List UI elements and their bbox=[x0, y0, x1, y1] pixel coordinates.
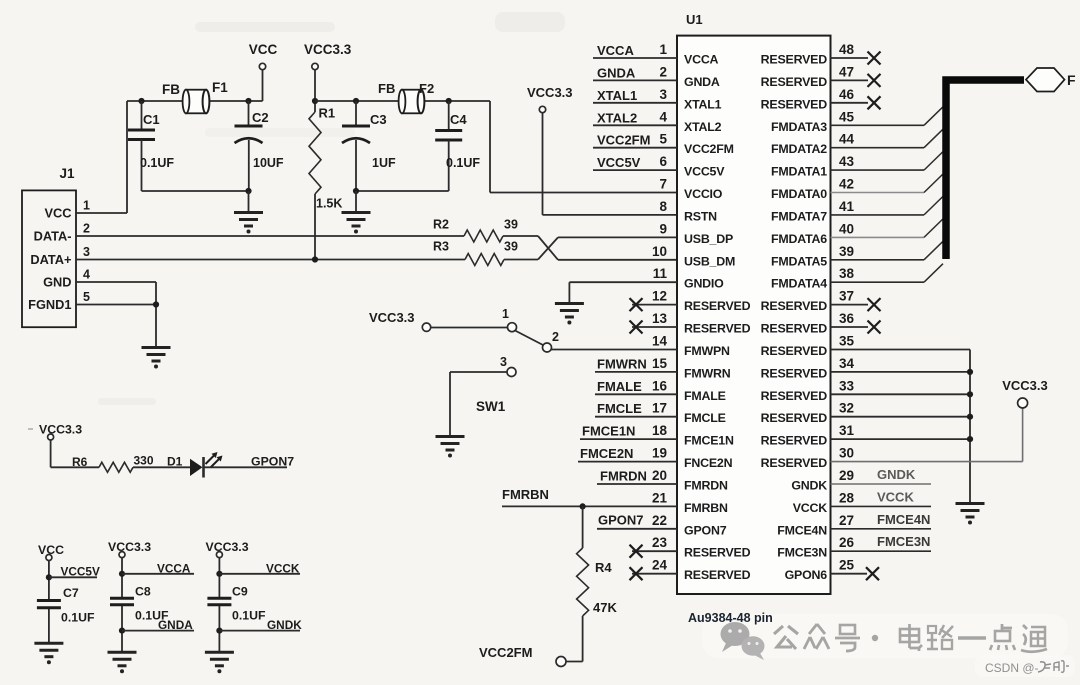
svg-text:2: 2 bbox=[83, 222, 90, 236]
svg-text:0.1UF: 0.1UF bbox=[232, 609, 266, 623]
svg-text:27: 27 bbox=[839, 513, 854, 528]
svg-text:39: 39 bbox=[504, 218, 518, 232]
svg-text:35: 35 bbox=[839, 334, 855, 349]
ground C7 bbox=[34, 643, 63, 664]
wire R6 to D1 bbox=[133, 466, 190, 468]
junction C3 bottom bbox=[353, 188, 359, 194]
svg-text:VCC3.3: VCC3.3 bbox=[369, 310, 415, 325]
junction R4 top bbox=[580, 503, 586, 509]
capacitor C4 bbox=[435, 101, 480, 191]
power VCC bbox=[249, 42, 278, 101]
svg-text:DATA-: DATA- bbox=[34, 229, 72, 244]
svg-text:17: 17 bbox=[652, 401, 667, 416]
resistor R1 bbox=[309, 106, 342, 211]
svg-text:FMALE: FMALE bbox=[597, 379, 642, 394]
svg-text:43: 43 bbox=[839, 154, 855, 169]
svg-text:VCC3.3: VCC3.3 bbox=[1002, 378, 1048, 393]
net label FMRDN pin 20 bbox=[597, 469, 677, 485]
svg-text:38: 38 bbox=[839, 266, 855, 281]
svg-text:34: 34 bbox=[839, 356, 855, 371]
net label GNDA bbox=[122, 618, 194, 632]
no-connect pin23 bbox=[630, 545, 678, 558]
wire crossover DATA+ to USB_DP bbox=[538, 237, 677, 259]
no-connect pin46 bbox=[831, 96, 881, 109]
svg-text:4: 4 bbox=[659, 109, 667, 124]
wire VCC3.3 to RSTN pin8 bbox=[543, 214, 678, 216]
capacitor C8 bbox=[110, 585, 169, 623]
svg-text:C1: C1 bbox=[143, 112, 160, 127]
IC U1 right pin names bbox=[761, 53, 828, 583]
no-connect pin36 bbox=[831, 321, 881, 334]
svg-text:RSTN: RSTN bbox=[684, 209, 717, 223]
svg-text:R6: R6 bbox=[72, 455, 88, 469]
svg-text:25: 25 bbox=[839, 558, 855, 573]
wire SW1 pin2 to FMWPN pin14 bbox=[552, 349, 678, 351]
switch SW1 pin3 bbox=[500, 355, 516, 377]
junction VCCK bbox=[216, 571, 222, 577]
no-connect pin24 bbox=[630, 567, 678, 580]
wire VCC3.3 rail bbox=[315, 100, 490, 102]
wire SW1 pin3 to ground bbox=[450, 372, 507, 436]
wire c8 vert bbox=[121, 558, 123, 652]
svg-text:39: 39 bbox=[839, 244, 854, 259]
ferrite bead F2 bbox=[378, 81, 434, 113]
watermark csdn credit bbox=[985, 661, 1069, 675]
switch SW1 arm bbox=[515, 331, 543, 346]
svg-text:C3: C3 bbox=[370, 112, 387, 127]
svg-text:FMDATA6: FMDATA6 bbox=[771, 232, 827, 246]
junction VCC5V bbox=[46, 574, 52, 580]
wire c7 vert bbox=[48, 561, 50, 644]
IC U1 part number bbox=[688, 611, 773, 625]
svg-text:GPON7: GPON7 bbox=[251, 455, 294, 469]
svg-text:0.1UF: 0.1UF bbox=[446, 156, 480, 170]
svg-text:FMDATA5: FMDATA5 bbox=[771, 254, 827, 268]
svg-text:FMCE4N: FMCE4N bbox=[777, 523, 827, 537]
switch SW1 label bbox=[476, 399, 506, 414]
LED D1 bbox=[167, 452, 223, 478]
net label GNDK bbox=[219, 618, 302, 632]
wire C3 to ground bbox=[355, 191, 357, 212]
svg-text:FMDATA7: FMDATA7 bbox=[771, 209, 827, 223]
svg-text:28: 28 bbox=[839, 490, 855, 505]
svg-text:FMCLE: FMCLE bbox=[684, 411, 726, 425]
svg-text:VCCA: VCCA bbox=[684, 53, 719, 67]
svg-text:47K: 47K bbox=[593, 600, 617, 615]
wire C2 to ground bbox=[248, 191, 250, 212]
svg-text:10UF: 10UF bbox=[253, 156, 284, 170]
net label GNDA pin 2 bbox=[593, 65, 677, 80]
svg-text:C9: C9 bbox=[232, 585, 248, 599]
junction R1 top rail bbox=[312, 98, 318, 104]
svg-text:48: 48 bbox=[839, 42, 855, 57]
svg-text:FB: FB bbox=[378, 81, 395, 96]
svg-text:U1: U1 bbox=[686, 12, 703, 27]
net label FMCE2N pin 19 bbox=[578, 446, 677, 462]
svg-text:FMRDN: FMRDN bbox=[600, 469, 647, 484]
wire FMDATA pin39 bbox=[831, 241, 944, 259]
junction R1 DATA+ bbox=[312, 256, 318, 262]
svg-text:XTAL2: XTAL2 bbox=[684, 120, 722, 134]
svg-text:RESERVED: RESERVED bbox=[761, 389, 828, 403]
svg-text:3: 3 bbox=[83, 245, 90, 259]
svg-text:VCC: VCC bbox=[249, 42, 278, 57]
svg-text:R4: R4 bbox=[595, 560, 612, 575]
svg-text:37: 37 bbox=[839, 289, 854, 304]
svg-text:FMCE4N: FMCE4N bbox=[877, 512, 930, 527]
net label FMCE1N pin 18 bbox=[580, 424, 677, 440]
wire R3 out bbox=[504, 259, 538, 261]
svg-text:10: 10 bbox=[652, 244, 667, 259]
svg-text:29: 29 bbox=[839, 468, 854, 483]
junction J1 gnd node bbox=[153, 301, 159, 307]
wire C3-C4 bottom rail bbox=[356, 190, 449, 192]
net label FMWRN pin 15 bbox=[595, 356, 677, 372]
svg-text:31: 31 bbox=[839, 423, 855, 438]
net label VCC2FM pin 5 bbox=[593, 133, 677, 148]
wire GNDIO pin11 bbox=[569, 282, 677, 303]
svg-text:VCC3.3: VCC3.3 bbox=[527, 85, 573, 100]
svg-text:20: 20 bbox=[652, 468, 667, 483]
svg-text:GNDK: GNDK bbox=[791, 479, 827, 493]
wire pin31 to gnd rail bbox=[831, 436, 974, 442]
svg-text:FMCE3N: FMCE3N bbox=[777, 546, 827, 560]
svg-text:VCC3.3: VCC3.3 bbox=[39, 423, 82, 437]
net label FMCE3N pin 26 bbox=[831, 534, 932, 551]
ground C2 bbox=[234, 213, 263, 234]
IC U1 left pin numbers bbox=[652, 42, 668, 573]
svg-text:26: 26 bbox=[839, 535, 855, 550]
svg-text:USB_DP: USB_DP bbox=[684, 232, 733, 246]
svg-text:D1: D1 bbox=[167, 455, 183, 469]
wire R1 to DATA+ bbox=[314, 194, 316, 260]
wire FMDATA pin43 bbox=[831, 152, 944, 171]
svg-text:C4: C4 bbox=[450, 112, 467, 127]
svg-text:16: 16 bbox=[652, 378, 668, 393]
svg-text:18: 18 bbox=[652, 423, 668, 438]
svg-text:VCC3.3: VCC3.3 bbox=[206, 540, 249, 554]
svg-text:VCC3.3: VCC3.3 bbox=[304, 42, 352, 57]
svg-text:FMDATA1: FMDATA1 bbox=[771, 165, 827, 179]
net label VCC5V bbox=[49, 565, 100, 579]
wire FMDATA pin38 bbox=[831, 264, 944, 283]
svg-text:VCC2FM: VCC2FM bbox=[684, 142, 734, 156]
svg-text:9: 9 bbox=[659, 221, 667, 236]
svg-text:3: 3 bbox=[659, 87, 667, 102]
power VCC3.3 c8 bbox=[108, 540, 151, 558]
svg-text:J1: J1 bbox=[59, 166, 75, 181]
svg-text:13: 13 bbox=[652, 311, 668, 326]
svg-text:RESERVED: RESERVED bbox=[761, 53, 828, 67]
svg-text:2: 2 bbox=[659, 64, 667, 79]
no-connect pin25 bbox=[831, 567, 880, 580]
svg-text:39: 39 bbox=[504, 240, 518, 254]
svg-text:33: 33 bbox=[839, 378, 855, 393]
watermark text gongzhonghao bbox=[774, 624, 1047, 652]
svg-text:USB_DM: USB_DM bbox=[684, 254, 735, 268]
svg-text:VCC5V: VCC5V bbox=[597, 155, 641, 170]
svg-text:RESERVED: RESERVED bbox=[684, 568, 751, 582]
svg-text:VCC2FM: VCC2FM bbox=[597, 133, 650, 148]
svg-text:22: 22 bbox=[652, 513, 667, 528]
wire VCC rail bbox=[127, 100, 263, 102]
capacitor C3 bbox=[342, 101, 396, 191]
svg-text:15: 15 bbox=[652, 356, 668, 371]
svg-text:6: 6 bbox=[659, 154, 667, 169]
svg-text:RESERVED: RESERVED bbox=[761, 75, 828, 89]
wire FMDATA pin44 bbox=[831, 129, 944, 148]
wire DATA- from J1 pin2 to R2 bbox=[76, 235, 464, 237]
svg-text:F2: F2 bbox=[419, 81, 434, 96]
svg-text:C7: C7 bbox=[63, 586, 79, 600]
IC U1 body bbox=[677, 12, 831, 594]
svg-text:FB: FB bbox=[162, 82, 180, 97]
svg-text:FMCLE: FMCLE bbox=[597, 401, 642, 416]
wire C1-C2 bottom rail bbox=[142, 190, 249, 192]
capacitor C1 bbox=[128, 101, 174, 191]
capacitor C2 bbox=[235, 101, 284, 191]
svg-text:1: 1 bbox=[502, 307, 509, 321]
net label GPON7 led bbox=[251, 455, 294, 469]
svg-text:FMALE: FMALE bbox=[684, 389, 726, 403]
wire VCC3.3 to VCCIO pin7 bbox=[490, 101, 677, 193]
svg-text:R3: R3 bbox=[433, 240, 449, 254]
svg-text:VCC3.3: VCC3.3 bbox=[108, 540, 151, 554]
no-connect pin13 bbox=[630, 321, 678, 334]
svg-text:R2: R2 bbox=[433, 218, 449, 232]
power VCC c7 bbox=[38, 543, 64, 561]
svg-text:1UF: 1UF bbox=[372, 156, 396, 170]
svg-text:RESERVED: RESERVED bbox=[761, 322, 828, 336]
svg-text:32: 32 bbox=[839, 401, 854, 416]
svg-text:GPON7: GPON7 bbox=[598, 513, 644, 528]
net label GPON7 pin 22 bbox=[597, 513, 677, 529]
svg-text:RESERVED: RESERVED bbox=[761, 97, 828, 111]
net label FMCE4N pin 27 bbox=[831, 512, 932, 529]
svg-text:DATA+: DATA+ bbox=[30, 252, 71, 267]
svg-text:CSDN @-: CSDN @- bbox=[985, 661, 1039, 675]
power VCC3.3 top-left bbox=[304, 42, 352, 112]
svg-text:FMWRN: FMWRN bbox=[597, 356, 647, 371]
power VCC3.3 switch bbox=[369, 310, 431, 331]
svg-text:1.5K: 1.5K bbox=[316, 197, 342, 211]
svg-text:F1: F1 bbox=[212, 80, 228, 95]
svg-text:FMCE1N: FMCE1N bbox=[582, 424, 635, 439]
capacitor C9 bbox=[207, 585, 266, 623]
svg-text:XTAL2: XTAL2 bbox=[597, 110, 637, 125]
off-page connector F bbox=[1026, 68, 1076, 92]
ground C8 bbox=[108, 652, 137, 673]
svg-text:36: 36 bbox=[839, 311, 855, 326]
ground GNDIO bbox=[555, 304, 584, 325]
svg-text:FMCE1N: FMCE1N bbox=[684, 434, 734, 448]
svg-text:11: 11 bbox=[653, 266, 668, 281]
connector J1 bbox=[22, 166, 76, 327]
svg-text:RESERVED: RESERVED bbox=[761, 411, 828, 425]
power VCC3.3 led bbox=[28, 423, 82, 441]
net label VCCK bbox=[219, 562, 300, 576]
resistor R6 bbox=[72, 454, 154, 473]
bus FMDATA bbox=[946, 80, 1024, 259]
svg-text:GNDIO: GNDIO bbox=[684, 277, 724, 291]
net label GNDK pin 29 bbox=[831, 467, 932, 484]
power VCC3.3 mid bbox=[527, 85, 573, 215]
svg-text:VCCIO: VCCIO bbox=[684, 187, 723, 201]
wire led rail bbox=[51, 440, 99, 467]
power VCC3.3 c9 bbox=[206, 540, 249, 558]
ferrite bead F1 bbox=[162, 80, 228, 113]
svg-text:0.1UF: 0.1UF bbox=[61, 611, 95, 625]
wire pin35 to gnd rail bbox=[831, 350, 971, 504]
net label FMALE pin 16 bbox=[595, 379, 677, 395]
connector J1 pin labels bbox=[28, 199, 90, 313]
wire pin30 to VCC3.3 bbox=[831, 409, 1023, 462]
svg-text:30: 30 bbox=[839, 446, 854, 461]
svg-text:1: 1 bbox=[659, 42, 667, 57]
wire c9 vert bbox=[218, 558, 220, 652]
power VCC3.3 right bbox=[1002, 378, 1048, 408]
wire FMDATA pin42 bbox=[831, 174, 944, 193]
svg-text:FGND1: FGND1 bbox=[28, 297, 71, 312]
junction C2 bottom bbox=[245, 188, 251, 194]
svg-text:FMRBN: FMRBN bbox=[502, 487, 549, 502]
svg-text:44: 44 bbox=[839, 132, 855, 147]
svg-text:40: 40 bbox=[839, 221, 854, 236]
svg-text:RESERVED: RESERVED bbox=[761, 434, 828, 448]
wire FMDATA pin45 bbox=[831, 107, 944, 126]
svg-text:R1: R1 bbox=[319, 106, 336, 121]
power VCC2FM terminal bbox=[479, 645, 566, 667]
svg-text:45: 45 bbox=[839, 109, 855, 124]
svg-text:8: 8 bbox=[659, 199, 667, 214]
svg-text:5: 5 bbox=[659, 132, 667, 147]
svg-text:RESERVED: RESERVED bbox=[761, 456, 828, 470]
wire crossover DATA- to USB_DM bbox=[538, 236, 677, 260]
svg-text:FMWPN: FMWPN bbox=[684, 344, 730, 358]
junction GNDA bbox=[119, 628, 125, 634]
svg-text:SW1: SW1 bbox=[476, 399, 506, 414]
ground J1 bbox=[142, 348, 171, 369]
svg-text:FMRBN: FMRBN bbox=[684, 501, 728, 515]
switch SW1 pin2 bbox=[543, 330, 560, 352]
svg-text:RESERVED: RESERVED bbox=[684, 322, 751, 336]
wire D1 to GPON7 bbox=[204, 466, 288, 468]
wire R2 out bbox=[503, 235, 538, 237]
net label VCC5V pin 6 bbox=[593, 155, 677, 170]
junction C4 top bbox=[446, 98, 452, 104]
svg-text:FMCE2N: FMCE2N bbox=[580, 446, 633, 461]
no-connect pin12 bbox=[630, 298, 678, 311]
svg-text:C2: C2 bbox=[252, 110, 269, 125]
ground reserved pins bbox=[956, 504, 985, 525]
svg-text:RESERVED: RESERVED bbox=[761, 299, 828, 313]
svg-text:41: 41 bbox=[839, 199, 855, 214]
svg-text:GNDA: GNDA bbox=[597, 65, 636, 80]
junction C2 top bbox=[245, 98, 251, 104]
svg-text:RESERVED: RESERVED bbox=[761, 366, 828, 380]
wire pin34 to gnd rail bbox=[831, 369, 974, 375]
svg-text:XTAL1: XTAL1 bbox=[684, 97, 722, 111]
svg-text:RESERVED: RESERVED bbox=[684, 299, 751, 313]
net label FMRBN pin 21 bbox=[502, 487, 677, 506]
svg-text:FMCE3N: FMCE3N bbox=[877, 534, 930, 549]
ground C3 bbox=[342, 213, 371, 234]
no-connect pin48 bbox=[831, 52, 881, 65]
svg-text:FMDATA4: FMDATA4 bbox=[771, 277, 827, 291]
svg-text:2: 2 bbox=[552, 330, 559, 344]
resistor R3 bbox=[433, 240, 518, 266]
svg-text:RESERVED: RESERVED bbox=[684, 546, 751, 560]
ground SW1 bbox=[436, 437, 465, 458]
svg-text:XTAL1: XTAL1 bbox=[597, 88, 637, 103]
capacitor C7 bbox=[37, 586, 95, 625]
svg-text:7: 7 bbox=[659, 177, 667, 192]
svg-text:GNDK: GNDK bbox=[877, 467, 916, 482]
junction GNDK bbox=[216, 628, 222, 634]
svg-text:FMRDN: FMRDN bbox=[684, 479, 728, 493]
svg-text:19: 19 bbox=[652, 446, 667, 461]
svg-text:FMDATA3: FMDATA3 bbox=[771, 120, 827, 134]
wire J1 pin4 GND bbox=[76, 282, 156, 347]
no-connect pin37 bbox=[831, 298, 881, 311]
IC U1 right pin numbers bbox=[839, 42, 855, 573]
svg-text:46: 46 bbox=[839, 87, 855, 102]
svg-text:RESERVED: RESERVED bbox=[761, 344, 828, 358]
wire FMDATA pin40 bbox=[831, 219, 944, 238]
svg-text:FMWRN: FMWRN bbox=[684, 366, 731, 380]
svg-text:GNDA: GNDA bbox=[684, 75, 720, 89]
svg-text:GPON6: GPON6 bbox=[785, 568, 828, 582]
wire pin32 to gnd rail bbox=[831, 414, 974, 420]
wire pin33 to gnd rail bbox=[831, 391, 974, 397]
net label VCCA pin 1 bbox=[593, 43, 677, 58]
wire J1 pin5 FGND1 bbox=[76, 304, 156, 306]
svg-text:GPON7: GPON7 bbox=[684, 523, 727, 537]
svg-text:FMDATA2: FMDATA2 bbox=[771, 142, 827, 156]
wire VCC3.3 to SW1 pin1 bbox=[430, 327, 507, 329]
svg-text:VCCA: VCCA bbox=[597, 43, 634, 58]
junction VCCA bbox=[119, 571, 125, 577]
svg-text:0.1UF: 0.1UF bbox=[140, 156, 174, 170]
svg-text:4: 4 bbox=[83, 268, 90, 282]
ground C9 bbox=[205, 652, 234, 673]
svg-text:VCCK: VCCK bbox=[877, 489, 914, 504]
net label FMCLE pin 17 bbox=[595, 401, 677, 417]
svg-text:VCC5V: VCC5V bbox=[684, 165, 725, 179]
no-connect pin47 bbox=[831, 74, 881, 87]
wire R4 to VCC2FM bbox=[567, 616, 583, 662]
resistor R2 bbox=[433, 218, 518, 243]
svg-text:F: F bbox=[1067, 72, 1076, 88]
net label VCCK pin 28 bbox=[831, 489, 932, 506]
switch SW1 pin1 bbox=[502, 307, 517, 332]
svg-text:VCC: VCC bbox=[44, 206, 71, 221]
svg-text:47: 47 bbox=[839, 64, 854, 79]
svg-text:14: 14 bbox=[652, 334, 668, 349]
svg-text:12: 12 bbox=[652, 289, 667, 304]
svg-text:1: 1 bbox=[83, 199, 90, 213]
svg-text:3: 3 bbox=[500, 355, 507, 369]
watermark wechat icon bbox=[721, 622, 765, 660]
svg-text:FMDATA0: FMDATA0 bbox=[771, 187, 827, 201]
svg-text:21: 21 bbox=[652, 490, 668, 505]
svg-text:VCCK: VCCK bbox=[793, 501, 828, 515]
svg-text:C8: C8 bbox=[135, 585, 151, 599]
junction C3 top bbox=[353, 98, 359, 104]
wire DATA+ from J1 pin3 to R3 bbox=[76, 259, 465, 261]
wire FMDATA pin41 bbox=[831, 196, 944, 215]
svg-text:42: 42 bbox=[839, 177, 854, 192]
